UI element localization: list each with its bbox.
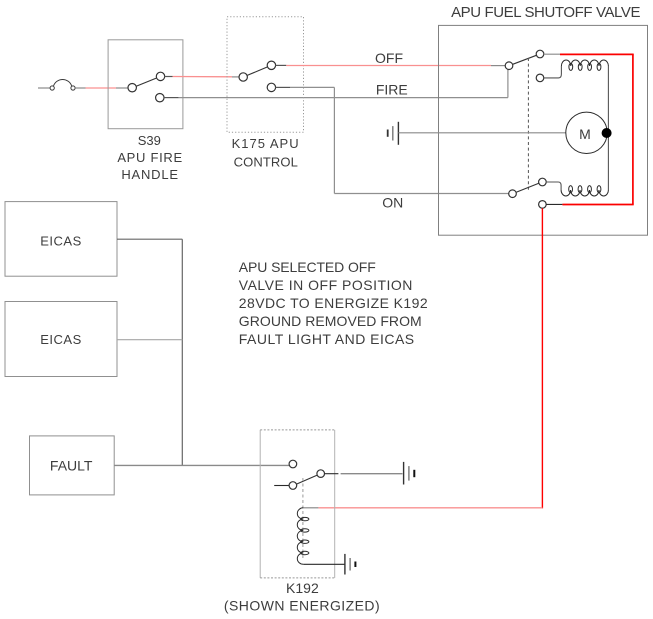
K192 box: [260, 430, 335, 578]
K175 box: [227, 17, 304, 133]
svg-text:APU FIRE: APU FIRE: [117, 150, 183, 165]
relay K192 lower contact stub: [274, 485, 289, 487]
svg-text:28VDC TO ENERGIZE K192: 28VDC TO ENERGIZE K192: [239, 295, 428, 311]
relay contact K175 arm: [247, 67, 267, 76]
wire K175 throw to valve pole (OFF, partly red): [275, 64, 505, 66]
mechanical link (valve switches): [527, 58, 529, 191]
red wire to K192 coil horizontal: [318, 507, 542, 509]
note text: [239, 259, 428, 347]
ground G2: [404, 462, 415, 485]
circuit breaker: [50, 79, 75, 90]
motor M: [566, 112, 607, 153]
switch S39 lower contact: [156, 94, 164, 102]
relay coil K192: [297, 508, 309, 564]
red bus right vertical: [632, 54, 634, 204]
valve top switch arm: [513, 55, 537, 64]
EICAS box 1: [5, 202, 117, 277]
relay K192 pole: [317, 470, 325, 478]
relay contact K175 pole: [239, 73, 247, 81]
FAULT box: [30, 436, 115, 495]
svg-text:(SHOWN ENERGIZED): (SHOWN ENERGIZED): [224, 598, 380, 614]
junction dot motor terminal: [602, 128, 612, 138]
label K175 APU CONTROL: [232, 136, 300, 169]
wire FAULT to K192: [114, 464, 289, 466]
ground G1: [388, 122, 399, 145]
wire upper contact to open coil: [546, 182, 561, 190]
valve bottom switch arm: [516, 183, 539, 192]
svg-text:EICAS: EICAS: [40, 332, 82, 347]
wire K192 pole to ground: [325, 473, 403, 475]
red bus top: [560, 53, 634, 55]
svg-text:S39: S39: [138, 133, 161, 148]
wire bottom lower contact stub: [546, 203, 562, 205]
relay K192 top contact: [289, 460, 297, 468]
red wire valve to K192 vertical: [541, 208, 543, 508]
relay contact K175 upper throw: [267, 61, 275, 69]
valve top switch upper contact: [536, 50, 544, 58]
svg-text:GROUND REMOVED FROM: GROUND REMOVED FROM: [239, 313, 422, 329]
relay K192 lower contact: [289, 482, 297, 490]
wire input stub: [38, 87, 50, 89]
wire EICAS bus vertical: [181, 239, 183, 465]
valve bottom switch lower contact: [539, 201, 547, 209]
valve bottom switch pole: [509, 190, 517, 198]
valve box: [439, 25, 648, 235]
wire coil interconnect (right side): [607, 66, 609, 190]
valve top switch lower contact: [536, 74, 544, 82]
svg-text:FAULT: FAULT: [50, 457, 93, 473]
svg-text:K192: K192: [286, 580, 319, 596]
svg-text:HANDLE: HANDLE: [121, 167, 179, 182]
EICAS box 2: [5, 302, 117, 377]
svg-text:VALVE IN OFF POSITION: VALVE IN OFF POSITION: [239, 277, 413, 293]
svg-text:APU FUEL SHUTOFF VALVE: APU FUEL SHUTOFF VALVE: [451, 4, 640, 21]
switch S39 throw contact: [156, 72, 164, 80]
wire breaker to S39 pole (28VDC, partly red): [75, 87, 128, 89]
open coil (bottom): [561, 186, 608, 196]
S39 box: [108, 40, 183, 129]
wire EICAS2 to bus: [117, 339, 182, 341]
svg-text:OFF: OFF: [375, 50, 403, 66]
mechanical link K192: [302, 478, 304, 559]
wire K192 coil bottom to ground: [303, 563, 345, 565]
valve bottom switch upper contact: [539, 178, 547, 186]
wire lower contact to close coil: [544, 66, 562, 78]
svg-text:FIRE: FIRE: [376, 82, 408, 98]
ground G3: [345, 554, 356, 575]
relay K192 arm: [297, 475, 318, 484]
red bus bottom: [562, 204, 633, 206]
wire EICAS1 to bus: [117, 238, 182, 240]
relay contact K175 lower contact: [267, 83, 275, 91]
wire K192 coil top: [303, 507, 318, 509]
svg-text:M: M: [579, 126, 591, 142]
wire K175 lower contact to valve ON pole: [275, 87, 508, 193]
valve top switch pole: [505, 62, 513, 70]
switch S39 arm: [136, 78, 156, 86]
svg-text:APU SELECTED OFF: APU SELECTED OFF: [239, 259, 376, 275]
wire S39 throw to K175 pole (partly red): [164, 76, 239, 78]
svg-text:EICAS: EICAS: [40, 233, 82, 248]
wire top contact stub: [544, 53, 560, 55]
svg-text:CONTROL: CONTROL: [234, 154, 298, 169]
svg-text:K175 APU: K175 APU: [232, 136, 300, 151]
wire ground to motor: [398, 132, 566, 134]
label S39 APU FIRE HANDLE: [117, 133, 183, 182]
wire S39 lower contact to valve pole (FIRE path): [164, 70, 508, 98]
close coil (top): [561, 60, 608, 70]
switch S39 pole: [128, 84, 136, 92]
svg-text:FAULT LIGHT AND EICAS: FAULT LIGHT AND EICAS: [239, 331, 415, 347]
svg-text:ON: ON: [382, 195, 403, 211]
